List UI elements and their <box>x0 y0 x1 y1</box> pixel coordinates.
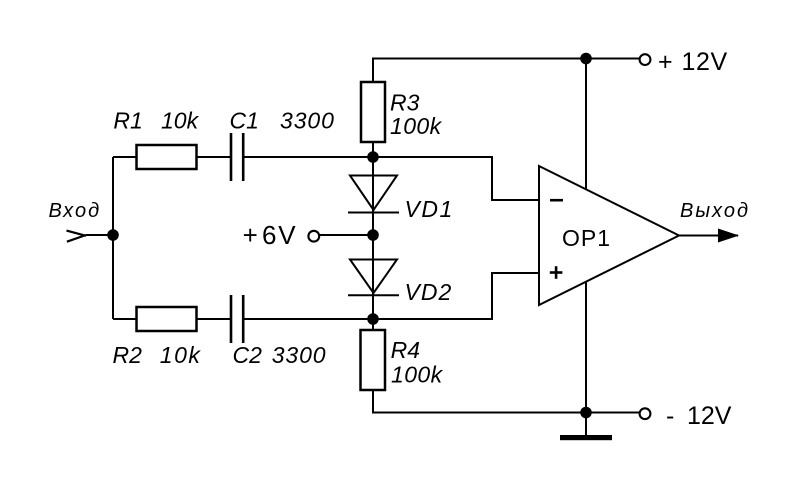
wire R3 bottom to top node <box>372 142 374 157</box>
svg-text:Вход: Вход <box>49 200 102 222</box>
wire left vertical input branch <box>112 157 114 319</box>
capacitor C2 <box>231 295 243 343</box>
input terminal chevron <box>67 231 87 242</box>
op-amp non-inverting input plus sign <box>550 266 563 279</box>
terminal circle +6V <box>308 231 319 242</box>
svg-text:6V: 6V <box>262 220 297 250</box>
wire C1 to inverting corner <box>244 157 538 200</box>
wire diode chain vertical <box>372 157 374 319</box>
diode VD1 <box>348 176 399 213</box>
capacitor C1 <box>231 133 243 181</box>
op-amp inverting input minus sign <box>550 199 563 202</box>
wire R2 to C2 <box>197 318 230 320</box>
wire node to R1 <box>113 156 136 158</box>
wire input stub <box>86 234 113 236</box>
terminal circle -12V <box>640 408 651 419</box>
node: diode midpoint junction <box>367 229 379 241</box>
node: input junction <box>107 229 119 241</box>
wire C2 to non-inverting corner <box>244 273 538 319</box>
svg-text:-: - <box>666 402 674 430</box>
op-amp OP1 triangle <box>539 166 679 305</box>
resistor R1 <box>137 145 197 169</box>
resistor R2 <box>137 307 197 331</box>
svg-text:R4: R4 <box>391 337 420 363</box>
wire R4 top stub <box>372 319 374 330</box>
wire +12V supply drop to op-amp <box>585 59 587 190</box>
svg-text:100k: 100k <box>390 113 443 139</box>
svg-text:3300: 3300 <box>272 342 327 368</box>
svg-text:+: + <box>243 220 258 250</box>
node: +12V rail junction <box>580 53 592 65</box>
wire R4 bottom to -12V rail <box>373 390 640 413</box>
svg-text:12V: 12V <box>682 48 728 76</box>
svg-text:10k: 10k <box>161 108 200 134</box>
svg-text:+: + <box>658 48 673 76</box>
svg-text:VD2: VD2 <box>405 279 453 305</box>
resistor R3 <box>361 82 385 142</box>
svg-text:VD1: VD1 <box>405 196 454 222</box>
wire +6V stub <box>319 234 373 236</box>
svg-text:C2: C2 <box>233 342 263 368</box>
svg-text:100k: 100k <box>391 361 444 387</box>
node: bottom signal junction <box>367 313 379 325</box>
wire -12V supply to op-amp <box>585 282 587 413</box>
node: -12V rail junction <box>580 407 592 419</box>
terminal circle +12V <box>640 54 651 65</box>
resistor R4 <box>361 330 386 390</box>
svg-text:12V: 12V <box>687 402 732 430</box>
svg-text:Выход: Выход <box>680 200 750 222</box>
svg-text:3300: 3300 <box>280 108 335 134</box>
wire ground stub <box>585 413 587 436</box>
svg-text:10k: 10k <box>160 342 202 368</box>
wire R1 to C1 <box>197 156 230 158</box>
svg-text:R1: R1 <box>113 108 142 134</box>
svg-text:R3: R3 <box>390 90 420 116</box>
svg-text:OP1: OP1 <box>562 225 611 251</box>
svg-text:C1: C1 <box>230 108 259 134</box>
wire node to R2 <box>113 318 136 320</box>
svg-text:R2: R2 <box>113 342 143 368</box>
node: top signal junction <box>367 151 379 163</box>
diode VD2 <box>348 260 399 296</box>
output arrowhead <box>718 229 739 243</box>
ground <box>560 435 612 440</box>
wire output <box>679 235 738 237</box>
wire top rail +12V <box>373 59 640 83</box>
